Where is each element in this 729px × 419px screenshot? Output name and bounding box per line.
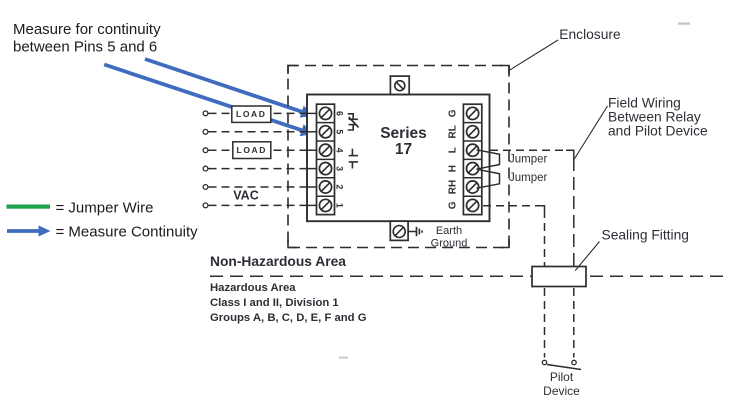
screw pin 6 (319, 107, 331, 119)
svg-text:Sealing Fitting: Sealing Fitting (602, 228, 689, 243)
enclosure (dashed boundary box) (288, 66, 509, 248)
wire: pin 5 lead (203, 129, 316, 134)
terminal strip TB-left (pins 6..1) (317, 104, 335, 214)
svg-text:G: G (448, 109, 459, 117)
svg-text:VAC: VAC (233, 189, 258, 203)
contact NO (between pins 4 and 3) (349, 149, 358, 169)
svg-text:17: 17 (395, 141, 412, 158)
legend: jumper wire swatch (green) (7, 205, 51, 209)
svg-text:Enclosure: Enclosure (559, 27, 621, 42)
field wire L corner elbow (566, 150, 574, 158)
svg-text:Pilot: Pilot (550, 370, 574, 384)
svg-text:4: 4 (335, 148, 345, 153)
svg-text:Field Wiring: Field Wiring (608, 96, 681, 111)
svg-text:H: H (448, 165, 459, 172)
load L2 (box on pin 4 lead) (233, 142, 271, 159)
svg-text:1: 1 (335, 203, 345, 208)
field wire G to sealing fitting (horizontal) (483, 205, 538, 207)
svg-text:Between Relay: Between Relay (608, 109, 701, 124)
sealing fitting leader line (575, 242, 599, 271)
hazardous area boundary (dashed) (210, 275, 729, 277)
pilot device switch S1 (542, 360, 581, 369)
relay U1: Series 17 body (307, 95, 490, 222)
svg-text:6: 6 (335, 111, 345, 116)
jumper wire H-RH (477, 169, 500, 188)
screw terminal RH (467, 181, 479, 193)
screw pin 3 (319, 163, 331, 175)
svg-text:3: 3 (335, 166, 345, 171)
svg-text:Earth: Earth (436, 225, 462, 237)
wire: pin 4 lead (203, 148, 316, 153)
field wire G corner elbow (538, 206, 545, 210)
svg-text:LOAD: LOAD (236, 109, 266, 119)
stray mark top right (678, 23, 690, 25)
stray mark bottom center (339, 357, 348, 359)
relay U1 label (380, 125, 427, 158)
terminal TB-top (top screw terminal) (390, 76, 409, 94)
svg-text:G: G (448, 201, 459, 209)
svg-text:= Jumper Wire: = Jumper Wire (56, 200, 154, 217)
wire: pin 2 lead (203, 185, 316, 190)
wire: pin 1 lead (VAC) (203, 203, 316, 208)
measure-continuity arrow to pin 6 (145, 59, 314, 118)
screw terminal H (467, 163, 479, 175)
hazardous area label (210, 282, 367, 324)
svg-text:Non-Hazardous Area: Non-Hazardous Area (210, 254, 346, 269)
wire: pin 6 lead (203, 111, 316, 116)
svg-text:2: 2 (335, 185, 345, 190)
pilot device label (543, 370, 580, 398)
enclosure leader line (509, 40, 559, 71)
screw terminal G (top) (467, 107, 479, 119)
earth ground symbol (408, 227, 422, 236)
screw pin 4 (319, 144, 331, 156)
svg-text:Ground: Ground (431, 237, 468, 249)
svg-text:L: L (448, 147, 459, 153)
screw terminal L (467, 144, 479, 156)
jumper wire L-H (477, 150, 500, 169)
earth ground label (431, 225, 468, 250)
field wiring label (608, 96, 708, 139)
annotation: measure for continuity note (13, 21, 161, 56)
field wire L to sealing fitting (horizontal) (490, 149, 566, 151)
legend: measure continuity arrow (blue) (7, 226, 51, 237)
svg-text:between Pins 5 and 6: between Pins 5 and 6 (13, 39, 157, 56)
svg-text:Device: Device (543, 384, 580, 398)
svg-text:Class I and II, Division 1: Class I and II, Division 1 (210, 297, 339, 309)
sealing fitting body (532, 267, 586, 287)
field wiring leader line (574, 106, 607, 159)
screw pin 1 (319, 199, 331, 211)
svg-text:5: 5 (335, 129, 345, 134)
screw pin 2 (319, 181, 331, 193)
contact NC (between pins 6 and 5) (348, 114, 359, 130)
wire sealing fitting to pilot device (right) (573, 288, 575, 358)
wire stubs into left strip (307, 113, 318, 205)
svg-text:Jumper: Jumper (509, 172, 548, 184)
screw terminal RL (467, 126, 479, 138)
wire sealing fitting to pilot device (left) (544, 288, 546, 358)
measure-continuity arrow to pin 5 (104, 65, 314, 137)
svg-text:= Measure Continuity: = Measure Continuity (56, 224, 199, 241)
screw pin 5 (319, 126, 331, 138)
svg-text:RL: RL (448, 125, 459, 138)
field wire G to sealing fitting (vertical) (544, 210, 546, 266)
load L1 (box on pin 6 lead) (232, 106, 271, 122)
field wire L to sealing fitting (vertical) (573, 158, 575, 266)
svg-text:Measure for continuity: Measure for continuity (13, 21, 161, 38)
svg-text:LOAD: LOAD (237, 145, 267, 155)
svg-text:Series: Series (380, 125, 427, 142)
svg-text:Jumper: Jumper (509, 153, 548, 165)
svg-text:and Pilot Device: and Pilot Device (608, 124, 708, 139)
svg-text:RH: RH (448, 180, 459, 194)
wire: pin 3 lead (203, 166, 316, 171)
screw terminal G (bottom) (467, 199, 479, 211)
svg-text:Groups A, B, C, D, E, F and G: Groups A, B, C, D, E, F and G (210, 312, 367, 324)
svg-text:Hazardous Area: Hazardous Area (210, 282, 296, 294)
terminal strip TB-right (G RL L H RH G) (463, 104, 481, 214)
terminal TB-bottom (earth terminal) (390, 221, 408, 240)
